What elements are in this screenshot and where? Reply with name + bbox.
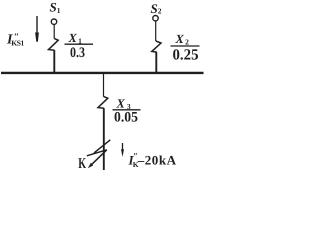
breaker zigzag X2	[152, 41, 161, 52]
source S1 circle	[51, 19, 56, 24]
current arrow I''KS1	[36, 16, 38, 36]
fraction bar X1	[65, 43, 94, 45]
source S2 circle	[153, 16, 158, 21]
svg-text:K: K	[78, 156, 86, 172]
breaker zigzag X1	[49, 38, 59, 50]
fraction bar X3	[113, 109, 141, 111]
wire: X2 to bus	[155, 52, 157, 73]
short-circuit lightning arrow at K	[94, 140, 110, 153]
fraction bar X2	[171, 45, 200, 47]
wire: X3 to fault point K	[103, 108, 105, 170]
breaker zigzag X3	[98, 96, 108, 108]
wire: bus to breaker X3	[103, 74, 105, 97]
svg-text:0.25: 0.25	[173, 47, 199, 64]
current arrow Ik	[122, 143, 124, 152]
wire: X1 to bus	[53, 50, 55, 73]
bus bar	[1, 72, 204, 74]
wire: S1 circle to breaker X1	[53, 25, 55, 39]
svg-text:KS1: KS1	[11, 39, 24, 48]
svg-text:0.05: 0.05	[114, 110, 138, 126]
svg-text:0.3: 0.3	[70, 45, 85, 61]
wire: S2 circle to breaker X2	[155, 21, 157, 41]
svg-text:–20kA: –20kA	[137, 153, 177, 168]
